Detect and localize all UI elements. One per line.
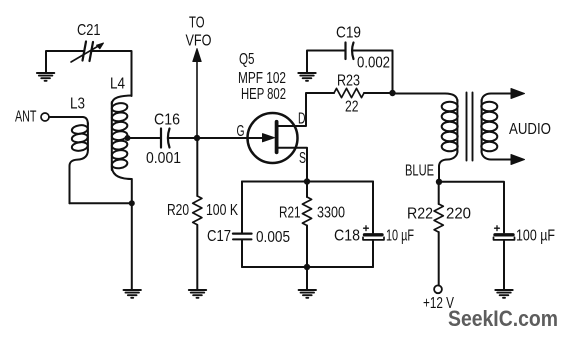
wire C21 right (92, 51, 132, 96)
svg-text:10 µF: 10 µF (386, 228, 414, 245)
capacitor C19 plates (346, 43, 354, 60)
wire BLUE to 100uF (439, 182, 504, 233)
wire box bottom (242, 266, 373, 268)
transformer core (466, 93, 468, 161)
transistor Q5 (263, 134, 275, 142)
svg-text:C16: C16 (154, 112, 180, 129)
svg-text:L3: L3 (70, 96, 85, 113)
svg-text:C17: C17 (207, 228, 231, 245)
resistor R22 (438, 182, 440, 204)
ground G3 (124, 290, 141, 298)
wire ANT to L3 (49, 117, 88, 125)
svg-text:R23: R23 (337, 73, 360, 90)
ground G4 (298, 73, 315, 81)
svg-text:0.005: 0.005 (256, 229, 290, 246)
terminal ANT (41, 113, 49, 121)
svg-text:SeekIC.com: SeekIC.com (448, 306, 558, 331)
capacitor 100uF (495, 233, 513, 236)
wire L4 bottom to ground (131, 179, 133, 290)
wire L3 bottom (70, 202, 133, 204)
wire box top (242, 181, 373, 183)
svg-text:L4: L4 (110, 76, 125, 93)
svg-text:100 µF: 100 µF (516, 228, 555, 245)
transformer T1 primary (445, 94, 457, 102)
capacitor C18 (365, 233, 383, 236)
svg-text:R22: R22 (407, 206, 433, 223)
wire C19 right (353, 51, 393, 94)
wire C21 left (46, 51, 84, 73)
wire box to ground (306, 267, 308, 290)
svg-text:R20: R20 (167, 202, 189, 219)
node S junction (304, 178, 310, 184)
ground G2 (189, 290, 206, 298)
svg-text:AUDIO: AUDIO (509, 121, 551, 138)
svg-text:C19: C19 (336, 25, 361, 42)
capacitor C17 (233, 232, 252, 234)
resistor R21 (306, 182, 308, 198)
wire C16 to gate (169, 137, 263, 139)
svg-text:R21: R21 (279, 205, 301, 222)
ground G1 (37, 73, 54, 81)
wire tap to C16 (128, 137, 161, 139)
node box bottom junction (304, 264, 310, 270)
arrow audio top (511, 89, 525, 99)
svg-text:Q5: Q5 (239, 51, 255, 68)
wire box right upper (372, 182, 374, 233)
svg-text:G: G (237, 123, 245, 140)
ground G5 (495, 290, 512, 298)
svg-text:S: S (299, 150, 306, 167)
capacitor C19 (307, 51, 345, 74)
inductor L4 (112, 96, 132, 105)
node L3/L4 junction (129, 200, 135, 206)
node R23/C19 junction (389, 90, 395, 96)
svg-text:BLUE: BLUE (405, 163, 434, 180)
node BLUE junction (436, 179, 442, 185)
svg-text:VFO: VFO (186, 33, 212, 50)
svg-text:100 K: 100 K (206, 202, 239, 219)
resistor R20 (196, 138, 198, 196)
arrow audio bottom (511, 155, 525, 165)
svg-text:0.001: 0.001 (146, 150, 181, 167)
svg-text:220: 220 (446, 206, 471, 223)
transformer T1 secondary (482, 94, 512, 102)
wire TO VFO arrow (196, 61, 198, 137)
ground G6 (299, 290, 316, 298)
svg-text:C21: C21 (77, 22, 101, 39)
wire source (278, 148, 307, 182)
svg-text:TO: TO (189, 15, 205, 32)
terminal +12V (434, 285, 442, 293)
wire to transformer (393, 93, 446, 95)
svg-text:3300: 3300 (317, 205, 345, 222)
capacitor C21 (83, 42, 94, 62)
svg-text:HEP 802: HEP 802 (241, 86, 286, 103)
svg-text:0.002: 0.002 (357, 55, 390, 72)
wire drain (278, 94, 306, 127)
svg-text:ANT: ANT (15, 109, 37, 126)
svg-text:MPF 102: MPF 102 (238, 70, 286, 87)
node VFO junction (194, 135, 200, 141)
svg-text:C18: C18 (334, 228, 360, 245)
wire box right lower (372, 241, 374, 268)
wire box left lower (241, 240, 243, 267)
wire box left upper (241, 182, 243, 233)
svg-text:D: D (298, 111, 306, 128)
inductor L3 (87, 123, 89, 150)
capacitor C16 (161, 129, 170, 148)
svg-text:22: 22 (345, 99, 359, 116)
node L4 tap (125, 135, 131, 141)
resistor R23 (306, 92, 334, 94)
